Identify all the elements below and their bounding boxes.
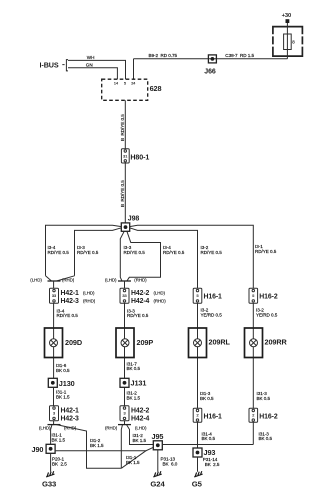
svg-text:G24: G24: [150, 479, 165, 488]
svg-text:H42-3: H42-3: [61, 416, 80, 423]
splice J98: [121, 216, 139, 232]
wire to pin 24: [133, 59, 135, 79]
svg-text:(RHD): (RHD): [134, 277, 147, 282]
splice J130: [48, 378, 74, 388]
svg-text:J66: J66: [204, 69, 216, 76]
wire bus right bottom: [130, 228, 198, 288]
svg-text:J95: J95: [152, 432, 164, 441]
wire J90 to G33: [50, 453, 52, 472]
svg-text:B RD/YE 0.5: B RD/YE 0.5: [120, 180, 125, 207]
fuse holder box: [273, 27, 303, 56]
connector H42-1/H42-3 lower: [50, 406, 80, 423]
svg-text:+30: +30: [282, 13, 292, 19]
wire J93 to G5: [197, 457, 199, 472]
svg-text:J90: J90: [32, 445, 44, 454]
svg-text:G5: G5: [192, 479, 203, 488]
connector H16-2 lower: [249, 408, 278, 422]
svg-text:(LHD): (LHD): [135, 426, 147, 431]
split bar lower center: [124, 421, 126, 425]
svg-text:B RD/YE 0.5: B RD/YE 0.5: [120, 114, 125, 141]
wire upper H42-2 to 209P: [124, 303, 126, 378]
svg-text:24: 24: [131, 81, 135, 85]
wire J95 to H16 columns: [162, 444, 253, 446]
svg-text:3: 3: [123, 412, 125, 416]
ground G24: [150, 471, 165, 488]
svg-text:5: 5: [252, 294, 254, 298]
wire RHD center down: [121, 425, 122, 469]
wire H80-1 to J98: [124, 163, 126, 223]
connector H42-1/H42-3 upper: [50, 288, 96, 305]
svg-text:2: 2: [196, 414, 198, 418]
ECU 628 dashed box: [102, 79, 162, 100]
svg-text:I-BUS: I-BUS: [40, 60, 59, 69]
svg-text:(RHD): (RHD): [105, 426, 118, 431]
wire diagonal up to J95: [121, 451, 146, 469]
connector H42-2/H42-4 lower: [120, 406, 150, 423]
svg-text:G33: G33: [42, 479, 56, 488]
svg-text:H42-1: H42-1: [61, 407, 80, 414]
wire upper H16-1 to 209RL: [197, 303, 199, 408]
svg-text:5: 5: [124, 81, 126, 85]
svg-text:209RL: 209RL: [209, 338, 231, 347]
connector H16-1 lower: [193, 408, 222, 422]
svg-text:5: 5: [196, 294, 198, 298]
wire J131 to lower H42-2: [124, 387, 126, 406]
svg-text:WH: WH: [87, 55, 95, 60]
wire bus right top: [130, 225, 254, 288]
lamp 209D: [45, 328, 83, 358]
svg-text:H80-1: H80-1: [130, 153, 149, 161]
merge bar center: [118, 280, 131, 282]
connector H16-2 upper: [249, 288, 278, 303]
svg-text:H42-4: H42-4: [131, 298, 150, 305]
wire J98 down-left col C: [120, 231, 124, 281]
svg-text:J98: J98: [128, 216, 140, 223]
svg-text:H42-2: H42-2: [131, 290, 150, 297]
svg-text:H42-2: H42-2: [131, 407, 150, 414]
svg-text:(RHD): (RHD): [154, 298, 167, 303]
svg-text:J93: J93: [204, 448, 216, 457]
wire bus left bottom: [75, 228, 122, 276]
lamp 209RL: [189, 328, 231, 358]
splice J95: [152, 432, 164, 450]
svg-text:33: 33: [52, 294, 56, 298]
bracket: [62, 60, 68, 71]
ground G5: [192, 471, 203, 488]
splice J131: [120, 378, 146, 387]
merge diagonals left pair: [46, 276, 75, 281]
svg-text:(LHD): (LHD): [39, 426, 51, 431]
svg-text:(LHD): (LHD): [154, 290, 166, 295]
wire J98 down-right col D: [127, 231, 161, 281]
ground G33: [42, 471, 56, 488]
svg-text:(LHD): (LHD): [83, 290, 95, 295]
wire 628 to H80-1: [124, 100, 126, 149]
svg-text:31: 31: [123, 154, 127, 158]
terminal +30: [282, 13, 292, 26]
connector H80-1: [121, 149, 149, 163]
wire battery feed horizontal: [134, 58, 288, 60]
wire RHD left to bottom run: [57, 425, 122, 469]
svg-text:H16-1: H16-1: [204, 413, 223, 420]
svg-text:H16-2: H16-2: [259, 294, 278, 301]
merge bar left: [48, 280, 61, 282]
svg-text:3: 3: [53, 412, 55, 416]
split bar lower left: [53, 421, 55, 425]
svg-text:H42-1: H42-1: [61, 290, 80, 297]
svg-text:C38-7 RD 1.5: C38-7 RD 1.5: [225, 53, 254, 58]
svg-text:33: 33: [122, 294, 126, 298]
splice J90: [32, 444, 56, 454]
lamp 209RR: [245, 328, 288, 358]
splice J93: [193, 448, 215, 457]
svg-text:(LHD): (LHD): [30, 277, 42, 282]
wire lower H16-1 to J93: [197, 422, 199, 448]
svg-text:H16-2: H16-2: [259, 413, 278, 420]
wire J95 to G24: [157, 450, 159, 472]
svg-text:209RR: 209RR: [265, 338, 288, 347]
svg-text:H42-3: H42-3: [61, 298, 80, 305]
wire LHD left to J90: [51, 425, 52, 445]
wire J130 to lower H42-1: [53, 387, 55, 406]
fuse 8: [284, 27, 296, 59]
splice J66: [204, 55, 216, 76]
wire upper H16-2 to 209RR: [252, 303, 254, 408]
svg-text:H16-1: H16-1: [204, 294, 223, 301]
wire lower H16-2 down: [252, 422, 254, 444]
svg-text:209D: 209D: [65, 338, 82, 347]
wire GN: [68, 68, 117, 79]
svg-text:GN: GN: [86, 63, 93, 68]
svg-text:(LHD): (LHD): [105, 277, 117, 282]
svg-text:628: 628: [150, 84, 162, 93]
wire upper H42-1 to 209D: [53, 303, 55, 378]
lamp 209P: [116, 328, 153, 358]
connector H42-2/H42-4 upper: [120, 288, 166, 305]
svg-text:H42-4: H42-4: [131, 416, 150, 423]
svg-text:J131: J131: [131, 379, 147, 388]
wire bus left top: [46, 225, 122, 275]
svg-text:(RHD): (RHD): [83, 298, 96, 303]
svg-text:J130: J130: [59, 379, 75, 388]
svg-text:14: 14: [114, 81, 118, 85]
connector H16-1 upper: [193, 288, 222, 303]
svg-text:209P: 209P: [137, 338, 154, 347]
svg-text:B9-2 RD 0.75: B9-2 RD 0.75: [149, 53, 178, 58]
wire WH: [68, 60, 126, 79]
wire LHD center to J95: [127, 425, 154, 445]
svg-text:2: 2: [252, 414, 254, 418]
wire J90 to J95: [55, 447, 153, 450]
